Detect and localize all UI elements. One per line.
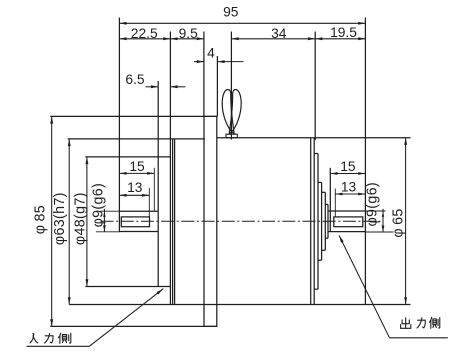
svg-text:13: 13 [341,180,357,195]
svg-text:φ63(h7): φ63(h7) [52,192,68,245]
svg-text:34: 34 [271,26,287,41]
svg-text:φ85: φ85 [32,205,48,234]
svg-text:22.5: 22.5 [131,26,158,41]
svg-text:9.5: 9.5 [179,26,199,41]
svg-text:13: 13 [127,180,143,195]
svg-text:15: 15 [340,159,356,174]
svg-text:95: 95 [223,4,239,19]
svg-text:15: 15 [129,159,145,174]
svg-text:φ9(g6): φ9(g6) [365,182,381,226]
svg-text:φ65: φ65 [391,208,407,237]
svg-text:φ48(g7): φ48(g7) [72,192,88,245]
svg-text:6.5: 6.5 [125,72,145,87]
svg-text:4: 4 [207,46,215,61]
svg-text:19.5: 19.5 [330,25,357,40]
svg-text:φ9(g6): φ9(g6) [91,183,107,227]
